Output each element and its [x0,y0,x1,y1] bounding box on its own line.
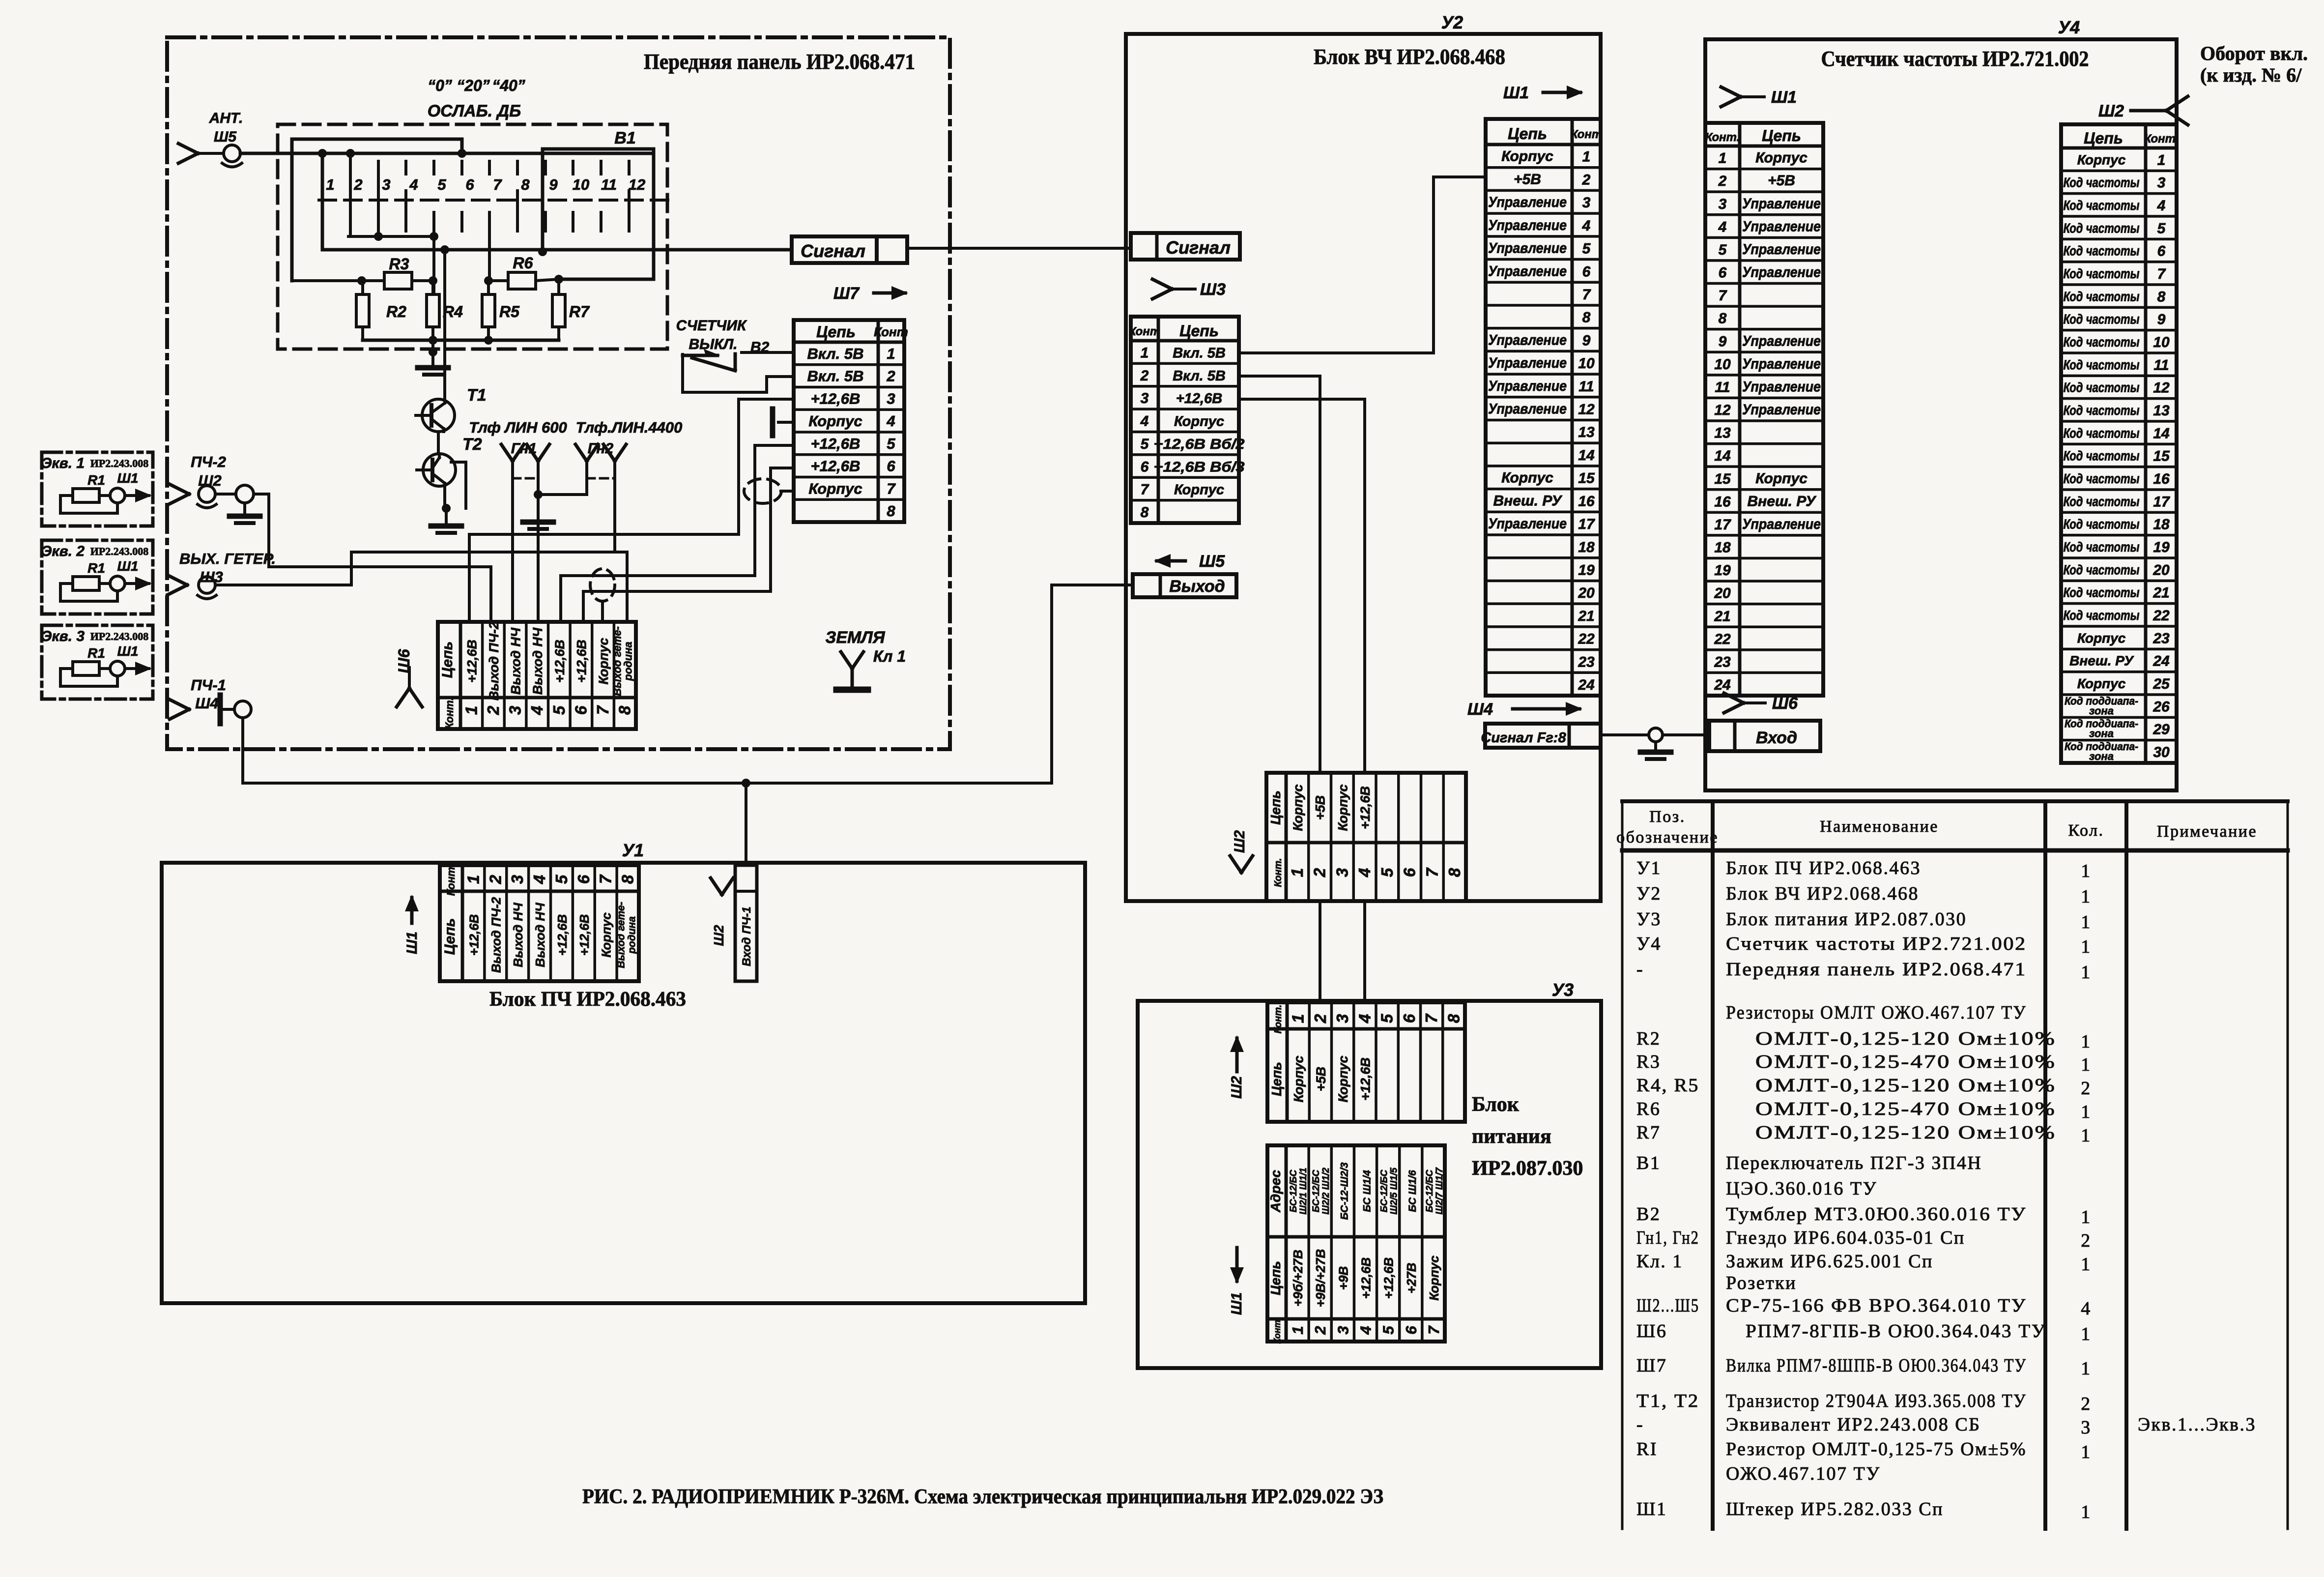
svg-text:R1: R1 [87,472,105,488]
svg-text:12: 12 [1714,402,1731,418]
wire contact2 drop [349,153,352,236]
svg-text:8: 8 [1141,504,1149,521]
svg-text:Т1: Т1 [467,386,487,405]
svg-text:Т1, Т2: Т1, Т2 [1636,1391,1699,1411]
svg-text:Внеш. РУ: Внеш. РУ [1493,493,1563,509]
svg-text:Конт.: Конт. [445,864,457,896]
svg-text:R5: R5 [499,303,520,321]
svg-text:3: 3 [1333,1014,1351,1023]
connector Ш6 label (У4) [1724,693,1798,713]
resistor R4 [427,281,463,340]
svg-text:Вкл. 5В: Вкл. 5В [807,345,863,362]
svg-text:Сигнал: Сигнал [801,241,865,261]
resistor R6 [488,254,559,289]
svg-text:5: 5 [437,176,446,193]
svg-text:Ш1: Ш1 [1636,1499,1667,1519]
connector table Ш2 (У3) [1267,1002,1465,1122]
svg-text:Цепь: Цепь [1268,790,1283,825]
svg-text:Кол.: Кол. [2068,821,2104,840]
switch B1 rotor bar [538,149,654,284]
svg-text:+5В: +5В [1314,1067,1328,1091]
wire contact10 stub [572,212,574,231]
svg-text:9: 9 [1719,333,1727,350]
wire +12,6В pin6 to Ш6 col6 [583,468,771,622]
svg-text:Код частоты: Код частоты [2064,539,2140,555]
svg-text:2: 2 [484,705,502,715]
svg-text:БС Ш1/6: БС Ш1/6 [1407,1170,1418,1212]
svg-text:4: 4 [528,706,546,715]
svg-text:1: 1 [326,176,334,193]
svg-text:ОЖО.467.107 ТУ: ОЖО.467.107 ТУ [1726,1463,1881,1484]
wire Ш3 pin1 to Ш1 pin2 (+5В) [1239,177,1486,353]
wire Ш7 pin7 stub to shield [781,490,794,493]
svg-text:Вкл. 5В: Вкл. 5В [807,368,863,385]
svg-text:Цепь: Цепь [1179,322,1219,340]
svg-text:У4: У4 [1636,934,1662,954]
svg-text:3: 3 [1333,868,1351,877]
svg-text:Управление: Управление [1742,402,1821,418]
svg-text:Ш3: Ш3 [1200,280,1226,299]
svg-text:Управление: Управление [1488,217,1567,234]
svg-text:“0”: “0” [428,77,452,94]
svg-text:Передняя панель ИР2.068.471: Передняя панель ИР2.068.471 [644,50,915,74]
svg-text:+5В: +5В [1514,171,1541,187]
svg-text:Конт.: Конт. [1272,1317,1282,1343]
svg-text:6: 6 [2157,243,2166,260]
svg-text:2: 2 [1140,368,1149,384]
svg-text:+12,6В: +12,6В [1176,391,1222,407]
svg-text:13: 13 [1578,424,1595,440]
wire shunt loop (Экв.2) [60,584,117,601]
wire contact7 drop [484,231,493,285]
svg-text:В1: В1 [1636,1153,1661,1173]
svg-text:Ш2...Ш5: Ш2...Ш5 [1636,1295,1699,1316]
svg-text:Код частоты: Код частоты [2064,585,2140,600]
wire Ш3 pin2 to Ш2 col2 [1239,376,1320,773]
svg-text:1: 1 [464,875,482,884]
block У1 border [162,863,1085,1303]
connector Ш1 label (У2) [1503,84,1583,102]
svg-text:Тлф ЛИН 600: Тлф ЛИН 600 [469,419,567,436]
block У3 border [1138,1001,1601,1368]
svg-text:Блок ПЧ ИР2.068.463: Блок ПЧ ИР2.068.463 [489,988,686,1011]
shield ellipse at Ш7 [744,479,781,503]
svg-text:1: 1 [1719,150,1727,167]
block У2 border [1126,34,1601,901]
svg-text:1: 1 [1141,345,1149,361]
svg-text:17: 17 [1714,517,1731,533]
svg-text:R7: R7 [569,303,590,321]
svg-text:4: 4 [886,412,895,430]
svg-text:3: 3 [887,390,895,407]
svg-text:10: 10 [2153,334,2170,350]
svg-text:Внеш. РУ: Внеш. РУ [1748,493,1817,509]
jack Гн2 [575,440,626,478]
svg-text:7: 7 [597,874,615,884]
block У2 designator [1441,12,1463,32]
label ОСЛАБ. ДБ [428,102,521,120]
wire ПЧ-1 to У1 and Выход [243,585,1133,788]
svg-text:Блок питания ИР2.087.030: Блок питания ИР2.087.030 [1726,909,1967,930]
svg-text:+12,6В: +12,6В [1359,1257,1374,1299]
svg-text:5: 5 [1141,436,1149,452]
svg-text:12: 12 [1578,402,1595,418]
svg-text:8: 8 [1445,868,1463,877]
svg-text:Код частоты: Код частоты [2064,289,2140,304]
svg-text:3: 3 [2157,175,2166,191]
svg-text:6: 6 [1401,868,1419,877]
svg-text:Код частоты: Код частоты [2064,220,2140,235]
wire Сигнал Fг:8 to У4 Вход [1601,733,1709,736]
svg-text:Управление: Управление [1488,401,1567,417]
svg-text:Выход гете-: Выход гете- [616,902,627,968]
svg-text:+12,6В: +12,6В [811,390,861,407]
svg-text:ОМЛТ-0,125-120 Ом±10%: ОМЛТ-0,125-120 Ом±10% [1755,1122,2056,1143]
wire contact1 to signal rail [321,153,324,250]
svg-text:Код частоты: Код частоты [2064,494,2140,509]
block У4 border [1705,39,2177,790]
connector ВЫХ.ГЕТЕР. Ш3 [168,550,276,599]
svg-text:Конт.: Конт. [1705,131,1740,144]
svg-text:17: 17 [2153,494,2170,510]
svg-text:1: 1 [2157,152,2166,168]
svg-text:21: 21 [2152,585,2169,601]
svg-text:Переключатель П2Г-3 ЗП4Н: Переключатель П2Г-3 ЗП4Н [1726,1153,1982,1173]
svg-text:Выход НЧ: Выход НЧ [533,903,547,967]
svg-text:Код частоты: Код частоты [2064,403,2140,418]
svg-text:Т2: Т2 [462,435,482,454]
front panel title [644,50,915,74]
wire Ш3 pin3 to Ш2 col4 [1239,399,1365,773]
svg-text:СЧЕТЧИК: СЧЕТЧИК [676,318,747,334]
svg-text:1: 1 [1288,868,1306,877]
transistor T2 [417,435,482,486]
ground of attenuator [418,340,448,375]
svg-text:ОМЛТ-0,125-120 Ом±10%: ОМЛТ-0,125-120 Ом±10% [1755,1028,2056,1049]
svg-text:Цепь: Цепь [1268,1261,1283,1295]
svg-text:Управление: Управление [1742,516,1821,532]
svg-text:ИР2.243.008: ИР2.243.008 [90,630,149,642]
svg-text:Блок: Блок [1472,1093,1520,1116]
grounded tap on counter input [1640,728,1671,759]
svg-text:+12,6В: +12,6В [811,435,861,452]
svg-text:Ш6: Ш6 [1772,694,1798,713]
svg-text:14: 14 [1714,448,1731,464]
wire left bus to R3 node [292,276,366,285]
svg-text:7: 7 [1422,1013,1440,1023]
svg-text:+12,6В: +12,6В [577,914,592,956]
svg-text:Код частоты: Код частоты [2064,517,2140,532]
svg-text:8: 8 [887,502,895,520]
svg-text:Цепь: Цепь [442,918,458,955]
svg-text:питания: питания [1472,1125,1551,1148]
svg-text:Конт.: Конт. [2144,132,2179,146]
svg-text:Ш5: Ш5 [214,129,237,145]
svg-text:4: 4 [1357,1326,1375,1335]
svg-text:Цепь: Цепь [2084,129,2123,147]
svg-text:25: 25 [2152,676,2170,692]
block У1 designator [622,840,644,860]
svg-text:Ш1: Ш1 [1503,84,1529,102]
svg-text:6: 6 [1400,1014,1418,1023]
resistor R1 (Экв.2) [73,577,99,590]
svg-text:-: - [1636,959,1644,980]
svg-text:20: 20 [2152,562,2170,578]
svg-text:“20”: “20” [457,77,490,94]
svg-text:1: 1 [462,706,480,715]
svg-text:Корпус: Корпус [1427,1256,1441,1301]
svg-text:Цепь: Цепь [439,642,456,678]
connector Ш2 label (У4) [2098,96,2188,125]
svg-text:ОМЛТ-0,125-120 Ом±10%: ОМЛТ-0,125-120 Ом±10% [1755,1075,2056,1096]
equivalent Экв.3 labels [41,628,148,661]
svg-text:У2: У2 [1441,12,1463,32]
svg-text:ОМЛТ-0,125-470 Ом±10%: ОМЛТ-0,125-470 Ом±10% [1755,1051,2056,1072]
wire T2 emitter to ground [442,486,451,524]
svg-text:5: 5 [2157,220,2166,236]
svg-text:22: 22 [1714,631,1731,647]
svg-text:Код частоты: Код частоты [2064,562,2140,577]
svg-text:8: 8 [1444,1014,1463,1023]
B1 main input bus wire [240,152,654,155]
svg-text:R1: R1 [87,560,105,576]
svg-text:Конт.: Конт. [1273,858,1284,887]
svg-text:4: 4 [530,875,548,884]
svg-text:Корпус: Корпус [2077,676,2126,691]
wire T1 emitter to T2 collector [437,432,440,454]
svg-text:Тлф.ЛИН.4400: Тлф.ЛИН.4400 [576,419,683,436]
svg-text:8: 8 [616,705,634,715]
svg-text:СР-75-166 ФВ ВРО.364.010 ТУ: СР-75-166 ФВ ВРО.364.010 ТУ [1726,1295,2027,1316]
connector table Ш7 [794,320,908,522]
svg-text:В2: В2 [1636,1204,1661,1225]
svg-text:22: 22 [2152,608,2170,624]
svg-text:Вкл. 5В: Вкл. 5В [1173,368,1226,384]
svg-text:Ш1: Ш1 [1771,88,1797,107]
B1 selector dashed line [319,191,668,210]
connector table Ш2 (У2) [1266,773,1466,901]
wire Ш7 pin3 stub [739,398,794,401]
svg-text:У3: У3 [1636,909,1662,930]
svg-text:1: 1 [2081,886,2092,907]
svg-text:1: 1 [2081,1442,2092,1462]
svg-text:21: 21 [1714,608,1730,624]
svg-text:2: 2 [2081,1078,2092,1099]
equivalent Экв.1 box [42,452,153,526]
svg-text:1: 1 [2081,1125,2092,1146]
svg-text:16: 16 [2153,471,2170,487]
svg-text:Корпус: Корпус [1755,150,1808,166]
svg-text:4: 4 [2081,1298,2092,1319]
svg-text:У4: У4 [2058,17,2080,37]
svg-text:2: 2 [1311,868,1329,877]
connector Ш2 label (У3) [1229,1035,1245,1099]
svg-text:4: 4 [1140,413,1149,430]
svg-text:Ш4: Ш4 [1467,700,1493,719]
svg-text:3: 3 [2081,1417,2092,1438]
svg-text:8: 8 [2157,289,2166,305]
svg-text:Ш1: Ш1 [1229,1292,1245,1315]
svg-text:1: 1 [2081,1324,2092,1344]
svg-text:Вилка РПМ7-8ШПБ-В ОЮ0.364.043: Вилка РПМ7-8ШПБ-В ОЮ0.364.043 ТУ [1726,1355,2027,1376]
svg-text:1: 1 [2081,1207,2092,1227]
svg-text:23: 23 [2152,630,2170,646]
svg-text:Счетчик частоты ИР2.721.002: Счетчик частоты ИР2.721.002 [1726,934,2027,954]
svg-text:7: 7 [594,705,612,715]
svg-text:Корпус: Корпус [1174,414,1224,430]
wire contact9 drop [541,212,544,252]
svg-text:+27В: +27В [1404,1263,1419,1294]
svg-text:1: 1 [1582,149,1591,165]
svg-text:обозначение: обозначение [1616,828,1719,847]
svg-text:Управление: Управление [1742,241,1821,258]
svg-text:Корпус: Корпус [2077,152,2126,167]
wire Ш7 pin5 stub [755,444,794,447]
svg-text:4: 4 [1355,1014,1374,1023]
svg-text:ПЧ-1: ПЧ-1 [191,676,226,694]
svg-text:Код частоты: Код частоты [2064,334,2140,350]
node Сигнал box (У2) [1131,233,1240,260]
svg-text:13: 13 [2153,403,2170,419]
signal output rail [322,245,792,254]
svg-text:5: 5 [1380,1326,1397,1335]
svg-text:Сигнал: Сигнал [1166,237,1231,258]
svg-text:У3: У3 [1552,980,1574,1000]
svg-text:Внеш. РУ: Внеш. РУ [2069,653,2134,669]
connector Ш1 label (У3) [1229,1248,1245,1315]
svg-text:+9б/+27В: +9б/+27В [1291,1250,1305,1307]
connector Ш7 label and arrow [833,284,908,303]
svg-text:Ш4: Ш4 [195,695,219,712]
svg-text:Конт: Конт [1571,128,1602,141]
wire rail to T1 collector [443,250,446,399]
svg-text:R2: R2 [1636,1028,1661,1049]
svg-text:Выход ПЧ-2: Выход ПЧ-2 [488,897,503,973]
svg-text:R3: R3 [389,255,409,273]
svg-text:У2: У2 [1636,883,1662,904]
svg-text:8: 8 [521,176,530,193]
svg-text:Сигнал Fг:8: Сигнал Fг:8 [1481,730,1566,746]
svg-text:5: 5 [1582,241,1591,257]
svg-text:БС Ш1/4: БС Ш1/4 [1362,1170,1373,1212]
svg-text:2: 2 [1718,173,1727,189]
svg-text:+5В: +5В [1313,795,1328,820]
svg-text:Код частоты: Код частоты [2064,471,2140,486]
connector table Ш2 (У1) Вход ПЧ-1 [735,865,757,981]
svg-text:7: 7 [1582,287,1591,303]
svg-text:Ш1: Ш1 [117,643,139,659]
svg-text:Ш6: Ш6 [1636,1321,1667,1342]
svg-text:Наименование: Наименование [1820,818,1939,836]
svg-text:5: 5 [1378,1014,1396,1023]
block У3 title [1472,1093,1583,1180]
svg-text:RI: RI [1636,1439,1658,1460]
svg-text:1: 1 [2081,1502,2092,1522]
svg-text:R1: R1 [87,645,105,661]
svg-text:2: 2 [353,176,362,193]
svg-text:3: 3 [508,875,526,884]
svg-text:+5В: +5В [1768,173,1795,189]
svg-text:3: 3 [506,706,524,715]
drawing caption [582,1486,1383,1508]
node АНТ. Ш5 label [209,110,243,145]
svg-text:Управление: Управление [1742,218,1821,234]
node Сигнал Fг:8 box (У2) [1481,724,1601,748]
resistor R2 [356,281,406,340]
svg-text:Вход: Вход [1756,729,1797,747]
svg-text:+12,6В: +12,6В [1358,786,1373,829]
svg-text:2: 2 [486,875,504,884]
wire branch to У1 Ш2 [745,783,747,865]
resistor R1 (Экв.1) [73,489,99,502]
svg-text:Ш7: Ш7 [833,284,860,303]
connector Ш1 label (У1) [404,895,420,954]
svg-text:2: 2 [1312,1326,1329,1335]
svg-text:8: 8 [619,875,637,884]
wire Гн1 right pin junction [534,461,587,622]
switch B2 [683,349,794,371]
block У1 title [489,988,686,1011]
connector Ш3 label (У2) [1152,279,1226,299]
svg-text:15: 15 [1714,471,1731,487]
svg-text:11: 11 [1578,379,1594,395]
svg-text:7: 7 [1423,867,1441,877]
svg-text:Код частоты: Код частоты [2064,608,2140,623]
connector Ш2 label (У2) [1230,830,1253,873]
svg-text:+12,6В: +12,6В [464,640,479,683]
svg-text:3: 3 [1582,195,1591,211]
svg-text:4: 4 [1355,868,1374,877]
svg-text:5: 5 [1719,242,1727,258]
svg-text:Корпус: Корпус [808,480,862,497]
connector ПЧ-1 Ш4 [170,676,251,724]
svg-text:Корпус: Корпус [1174,482,1224,498]
wire contact3 drop [377,177,380,236]
svg-text:6: 6 [465,176,474,193]
svg-text:Передняя панель ИР2.068.471: Передняя панель ИР2.068.471 [1726,959,2027,980]
svg-text:2: 2 [2081,1394,2092,1414]
equivalent Экв.2 labels [41,543,148,576]
svg-text:Ш5: Ш5 [1199,552,1225,571]
ground under Гн1 [523,522,553,529]
svg-text:Транзистор 2Т904А И93.365.008: Транзистор 2Т904А И93.365.008 ТУ [1726,1391,2027,1411]
svg-text:9: 9 [1582,332,1591,349]
svg-text:Резистор ОМЛТ-0,125-75 Ом±5%: Резистор ОМЛТ-0,125-75 Ом±5% [1726,1439,2027,1460]
svg-text:Управление: Управление [1488,263,1567,279]
wire Гн2 left pin [585,461,588,495]
svg-text:У1: У1 [1636,858,1662,878]
connector plug Ш1 (Экв.2) [99,576,152,591]
connector table Ш1 (У3) [1267,1145,1445,1344]
connector table Ш6 (front panel) [438,622,636,729]
svg-text:Ш1: Ш1 [117,470,139,486]
svg-text:18: 18 [1578,539,1595,555]
equivalent Экв.1 labels [41,455,148,488]
svg-text:Код частоты: Код частоты [2064,448,2140,464]
wire shield to Ш6 col7 [601,601,604,622]
svg-text:1: 1 [2081,936,2092,957]
svg-text:Выход НЧ: Выход НЧ [530,627,545,695]
svg-text:ЦЭО.360.016 ТУ: ЦЭО.360.016 ТУ [1726,1178,1877,1199]
block У4 title [1821,47,2089,71]
wire shunt loop (Экв.1) [60,496,117,513]
svg-text:6: 6 [1403,1326,1420,1335]
svg-text:R2: R2 [386,303,406,321]
svg-text:Цепь: Цепь [816,323,856,341]
svg-text:22: 22 [1578,631,1595,647]
svg-text:Управление: Управление [1488,194,1567,210]
svg-text:Выход ПЧ-2: Выход ПЧ-2 [487,622,501,701]
